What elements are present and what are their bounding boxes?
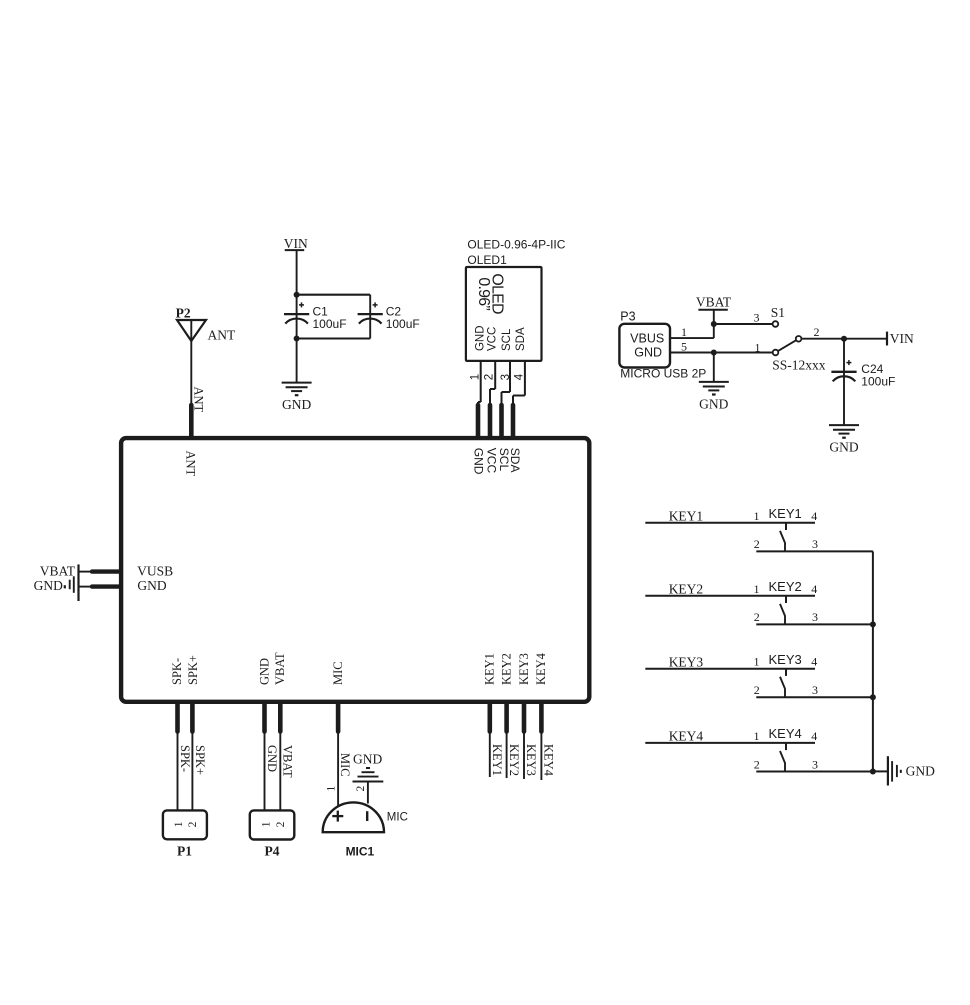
svg-text:MICRO USB 2P: MICRO USB 2P bbox=[620, 367, 706, 381]
svg-text:4: 4 bbox=[811, 582, 817, 596]
svg-text:MIC1: MIC1 bbox=[346, 844, 375, 858]
svg-text:VBAT: VBAT bbox=[40, 564, 76, 579]
svg-text:GND: GND bbox=[906, 764, 935, 779]
svg-text:3: 3 bbox=[812, 683, 818, 697]
svg-text:4: 4 bbox=[513, 373, 525, 380]
svg-text:OLED-0.96-4P-IIC: OLED-0.96-4P-IIC bbox=[467, 238, 565, 252]
svg-text:2: 2 bbox=[484, 374, 496, 380]
svg-text:P2: P2 bbox=[176, 306, 191, 321]
svg-text:3: 3 bbox=[812, 537, 818, 551]
svg-text:2: 2 bbox=[355, 786, 367, 792]
svg-text:1: 1 bbox=[173, 821, 185, 827]
svg-text:1: 1 bbox=[754, 655, 760, 669]
svg-text:KEY3: KEY3 bbox=[669, 654, 704, 669]
svg-text:SDA: SDA bbox=[508, 448, 522, 473]
svg-text:3: 3 bbox=[754, 311, 760, 325]
svg-text:OLED1: OLED1 bbox=[467, 253, 507, 267]
svg-text:KEY1: KEY1 bbox=[769, 506, 802, 521]
svg-text:4: 4 bbox=[811, 655, 817, 669]
svg-text:GND: GND bbox=[699, 396, 728, 411]
svg-text:SCL: SCL bbox=[501, 328, 513, 351]
svg-text:GND: GND bbox=[475, 325, 487, 351]
svg-text:P4: P4 bbox=[265, 844, 280, 859]
svg-text:P3: P3 bbox=[620, 310, 635, 324]
svg-text:SDA: SDA bbox=[515, 327, 527, 351]
svg-text:KEY2: KEY2 bbox=[769, 579, 802, 594]
svg-text:GND: GND bbox=[282, 397, 311, 412]
svg-text:100uF: 100uF bbox=[861, 375, 895, 389]
svg-text:VBAT: VBAT bbox=[696, 295, 732, 310]
svg-text:ANT: ANT bbox=[183, 451, 197, 477]
svg-text:VCC: VCC bbox=[484, 448, 498, 474]
svg-text:MIC: MIC bbox=[338, 753, 352, 777]
svg-text:0.96”: 0.96” bbox=[475, 277, 492, 310]
svg-text:1: 1 bbox=[754, 729, 760, 743]
svg-text:1: 1 bbox=[754, 509, 760, 523]
svg-text:SPK+: SPK+ bbox=[186, 655, 200, 685]
svg-text:3: 3 bbox=[500, 374, 512, 380]
svg-text:S1: S1 bbox=[771, 305, 785, 320]
svg-text:SPK-: SPK- bbox=[178, 745, 192, 772]
svg-text:ANT: ANT bbox=[191, 387, 205, 413]
svg-text:VCC: VCC bbox=[487, 327, 499, 351]
svg-text:GND: GND bbox=[265, 745, 279, 772]
svg-text:VBAT: VBAT bbox=[273, 652, 287, 685]
svg-text:KEY4: KEY4 bbox=[769, 726, 802, 741]
svg-text:KEY1: KEY1 bbox=[669, 508, 704, 523]
svg-text:SS-12xxx: SS-12xxx bbox=[772, 358, 826, 373]
svg-text:P1: P1 bbox=[177, 844, 192, 859]
svg-text:100uF: 100uF bbox=[313, 317, 347, 331]
svg-text:ANT: ANT bbox=[208, 328, 236, 343]
svg-text:KEY4: KEY4 bbox=[541, 744, 555, 777]
svg-text:VIN: VIN bbox=[284, 236, 308, 251]
svg-text:GND: GND bbox=[257, 658, 271, 685]
svg-text:2: 2 bbox=[187, 821, 199, 827]
svg-text:3: 3 bbox=[812, 610, 818, 624]
svg-text:GND: GND bbox=[634, 346, 662, 360]
svg-text:GND: GND bbox=[829, 440, 858, 455]
svg-text:VUSB: VUSB bbox=[137, 563, 173, 578]
svg-text:GND: GND bbox=[353, 752, 382, 767]
svg-text:4: 4 bbox=[811, 509, 817, 523]
svg-text:1: 1 bbox=[261, 821, 273, 827]
svg-text:KEY1: KEY1 bbox=[483, 653, 497, 685]
svg-text:KEY4: KEY4 bbox=[534, 652, 548, 685]
svg-text:1: 1 bbox=[325, 786, 337, 792]
svg-text:KEY2: KEY2 bbox=[507, 744, 521, 776]
svg-text:GND: GND bbox=[137, 578, 166, 593]
svg-text:100uF: 100uF bbox=[386, 317, 420, 331]
svg-text:GND: GND bbox=[34, 578, 63, 593]
svg-text:VBUS: VBUS bbox=[630, 332, 664, 346]
svg-text:KEY4: KEY4 bbox=[669, 729, 704, 744]
svg-text:2: 2 bbox=[275, 821, 287, 827]
svg-text:2: 2 bbox=[754, 610, 760, 624]
svg-text:VBAT: VBAT bbox=[281, 745, 295, 778]
svg-text:KEY3: KEY3 bbox=[517, 653, 531, 685]
svg-text:VIN: VIN bbox=[890, 331, 914, 346]
svg-text:2: 2 bbox=[754, 757, 760, 771]
svg-text:1: 1 bbox=[469, 374, 481, 380]
svg-text:2: 2 bbox=[754, 537, 760, 551]
svg-text:MIC: MIC bbox=[387, 811, 408, 823]
svg-text:KEY1: KEY1 bbox=[490, 744, 504, 776]
svg-text:1: 1 bbox=[754, 582, 760, 596]
svg-text:SPK+: SPK+ bbox=[193, 745, 207, 775]
svg-text:SPK-: SPK- bbox=[170, 658, 184, 685]
svg-text:KEY2: KEY2 bbox=[669, 581, 704, 596]
svg-text:MIC: MIC bbox=[331, 661, 345, 685]
svg-text:5: 5 bbox=[681, 339, 687, 353]
svg-text:KEY3: KEY3 bbox=[524, 744, 538, 776]
svg-text:3: 3 bbox=[812, 757, 818, 771]
svg-text:KEY3: KEY3 bbox=[769, 652, 802, 667]
svg-text:GND: GND bbox=[471, 448, 485, 475]
svg-text:4: 4 bbox=[811, 729, 817, 743]
svg-text:2: 2 bbox=[814, 325, 820, 339]
svg-text:1: 1 bbox=[681, 325, 687, 339]
svg-text:KEY2: KEY2 bbox=[499, 653, 513, 685]
svg-text:2: 2 bbox=[754, 683, 760, 697]
